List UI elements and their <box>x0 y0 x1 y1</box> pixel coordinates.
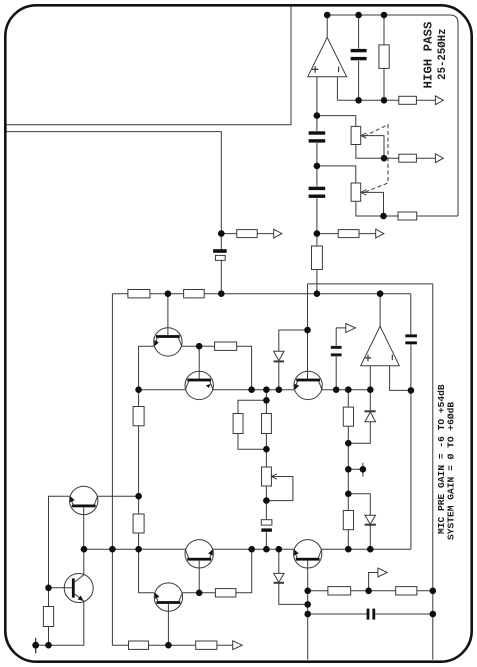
capacitor C1 <box>351 15 367 100</box>
junction dot mic input node <box>218 230 225 237</box>
wire R10 to rail <box>237 346 252 390</box>
wire feedback return <box>410 390 412 549</box>
wire Q4 base <box>83 507 85 549</box>
resistor R9 <box>184 290 205 298</box>
node stub tap <box>348 463 363 477</box>
wire VR3 wiper loop <box>266 477 293 501</box>
capacitor C6 electrolytic <box>261 520 272 550</box>
arrow output 7 <box>378 568 387 577</box>
wire U1 non-inverting input chain <box>316 77 318 294</box>
resistor R3 <box>312 246 323 270</box>
capacitor C2 <box>309 131 326 142</box>
resistor R8 <box>128 290 150 298</box>
capacitor C3 <box>309 187 326 198</box>
wire x348 chain <box>347 390 349 550</box>
wire Q7 base <box>167 604 169 645</box>
wire to arrow 5 <box>336 327 346 329</box>
resistor R12 <box>262 414 272 434</box>
wire U2 non-inverting input <box>369 366 371 390</box>
junction dots input chain <box>314 112 321 119</box>
capacitor C7 <box>308 609 433 620</box>
resistor R22 <box>343 511 353 530</box>
wire VR1 wiper <box>361 136 384 159</box>
wire U1 feedback rail <box>337 99 398 101</box>
junction dots trimmer rows <box>381 155 388 162</box>
resistor R21 <box>343 407 353 426</box>
resistor R18 <box>196 641 217 649</box>
diode D1 <box>274 351 284 389</box>
junction dots feedback row <box>355 97 362 104</box>
resistor R17 <box>129 641 149 649</box>
wire VR2 bottom <box>356 201 384 216</box>
junction dots high-pass rail <box>324 12 331 19</box>
wire shield boundary upper <box>7 6 292 125</box>
dashed gang link VR1-VR2 <box>364 125 388 193</box>
wire VR3 bottom <box>265 486 267 520</box>
transistor Q1 <box>154 328 182 356</box>
resistor R5 <box>398 212 417 220</box>
capacitor C8 feedback <box>405 294 417 391</box>
wire mic input from edge <box>7 132 222 234</box>
transistor Q4 <box>70 486 98 514</box>
wire U2 inverting input <box>390 366 411 391</box>
capacitor C4 electrolytic <box>213 234 227 294</box>
connector input pin <box>36 638 49 653</box>
resistor R13 <box>133 407 144 426</box>
wire main emitter rail <box>139 389 371 391</box>
wire to trimmer VR1 <box>317 116 356 127</box>
wire Q4 collector <box>97 495 138 497</box>
junction dot node A <box>304 327 311 334</box>
resistor R11 <box>233 414 243 434</box>
wire high-pass output rail <box>327 15 458 216</box>
arrow output 4 <box>376 229 384 238</box>
svg-text:HIGH PASS: HIGH PASS <box>421 21 435 88</box>
wire Q6 base <box>307 561 309 660</box>
op-amp U1 <box>308 37 347 76</box>
wire to output arrow 2 <box>384 157 435 159</box>
wire Q8 collector <box>83 549 85 575</box>
wire to trimmer VR2 <box>317 166 356 183</box>
resistor R4 <box>399 154 417 162</box>
wire row3 to frame <box>384 215 459 217</box>
wire preamp box right vertical <box>432 284 434 660</box>
diode D3 <box>348 390 375 444</box>
wire op-amp U1 output <box>326 15 328 37</box>
resistor R2 <box>399 96 417 104</box>
resistor R19 <box>328 587 351 595</box>
diode D4 <box>348 494 376 549</box>
junction dot Q4 collector <box>135 493 142 500</box>
junction dots supply rail <box>165 290 172 297</box>
junction dots Q6 base column <box>304 588 311 595</box>
wire Q6 base row <box>308 590 433 592</box>
wire left edge vertical <box>111 294 113 550</box>
wire to arrow 7 <box>369 573 378 591</box>
trimmer VR3 gain <box>262 467 277 486</box>
resistor R1 <box>379 15 389 100</box>
resistor R15 <box>215 589 236 597</box>
transistor Q8 <box>64 574 93 603</box>
wire Q8 base <box>49 587 72 589</box>
wire supply rail top <box>112 293 410 295</box>
wire node A to diode D1 <box>279 330 308 351</box>
arrow input 3 <box>274 229 282 238</box>
junction dot U2 inputs <box>408 387 415 394</box>
junction dot Q8 base <box>45 585 52 592</box>
trimmer VR2 <box>351 183 366 201</box>
wire U1 inverting input <box>336 77 338 101</box>
junction dots output row <box>365 588 372 595</box>
junction dots bottom rail <box>32 642 39 649</box>
transistor Q6 <box>294 540 322 568</box>
wire to arrow 4 <box>317 233 376 235</box>
wire VR1 bottom <box>356 145 384 159</box>
junction dots Q5 Q7 node <box>196 590 203 597</box>
wire node A vertical <box>307 284 309 381</box>
op-amp U2 <box>361 326 400 365</box>
arrow output 1 <box>435 96 443 105</box>
wire parallel pair bottom <box>238 434 266 468</box>
junction dots emitter rail <box>135 386 142 393</box>
wire Q2 base <box>198 346 200 378</box>
wire Q8 emitter <box>49 601 84 645</box>
svg-text:25-25ØHz: 25-25ØHz <box>437 28 449 79</box>
junction dots x348 chain <box>345 440 352 447</box>
capacitor C5 <box>331 328 342 390</box>
transistor Q3 <box>294 371 322 399</box>
resistor R20 <box>396 587 417 595</box>
wire to output arrow 1 <box>416 99 435 101</box>
svg-text:SYSTEM GAIN = Ø TO +6ØdB: SYSTEM GAIN = Ø TO +6ØdB <box>445 402 456 540</box>
wire input to arrow 3 <box>221 233 273 235</box>
diode D2 <box>274 549 308 604</box>
transistor Q7 <box>154 583 182 611</box>
trimmer VR1 <box>351 126 366 144</box>
transistor Q5 <box>185 540 213 568</box>
arrow output 2 <box>435 154 443 163</box>
junction dot Q1 collector <box>196 343 203 350</box>
wire VR2 wiper <box>361 192 384 216</box>
wire Q1 base to rail <box>167 294 169 335</box>
resistor R10 <box>215 342 237 350</box>
wire Q4 emitter <box>49 496 71 588</box>
wire bottom rail <box>112 549 232 645</box>
arrow output 6 <box>233 641 243 650</box>
resistor R16 <box>43 588 53 645</box>
junction dots lower rail <box>81 546 88 553</box>
arrow output 5 <box>346 324 356 333</box>
wire parallel pair top <box>238 390 266 414</box>
wire Q5 base <box>198 561 200 593</box>
junction dots parallel pair <box>263 397 270 404</box>
transistor Q2 <box>185 371 213 399</box>
wire preamp box top <box>308 283 433 285</box>
resistor R6 <box>237 230 257 238</box>
wire Q1 emitter <box>139 346 155 390</box>
wire Q7 collector to Q5 base <box>182 592 215 594</box>
resistor R7 <box>338 230 359 238</box>
wire U2 output <box>379 294 381 327</box>
wire x138 chain <box>138 390 140 550</box>
wire Q1 collector node <box>182 345 215 347</box>
resistor R14 <box>133 514 144 533</box>
wire lower rail <box>84 548 411 550</box>
wire Q7 emitter riser <box>139 549 155 593</box>
wire R15 to rail <box>236 549 252 593</box>
